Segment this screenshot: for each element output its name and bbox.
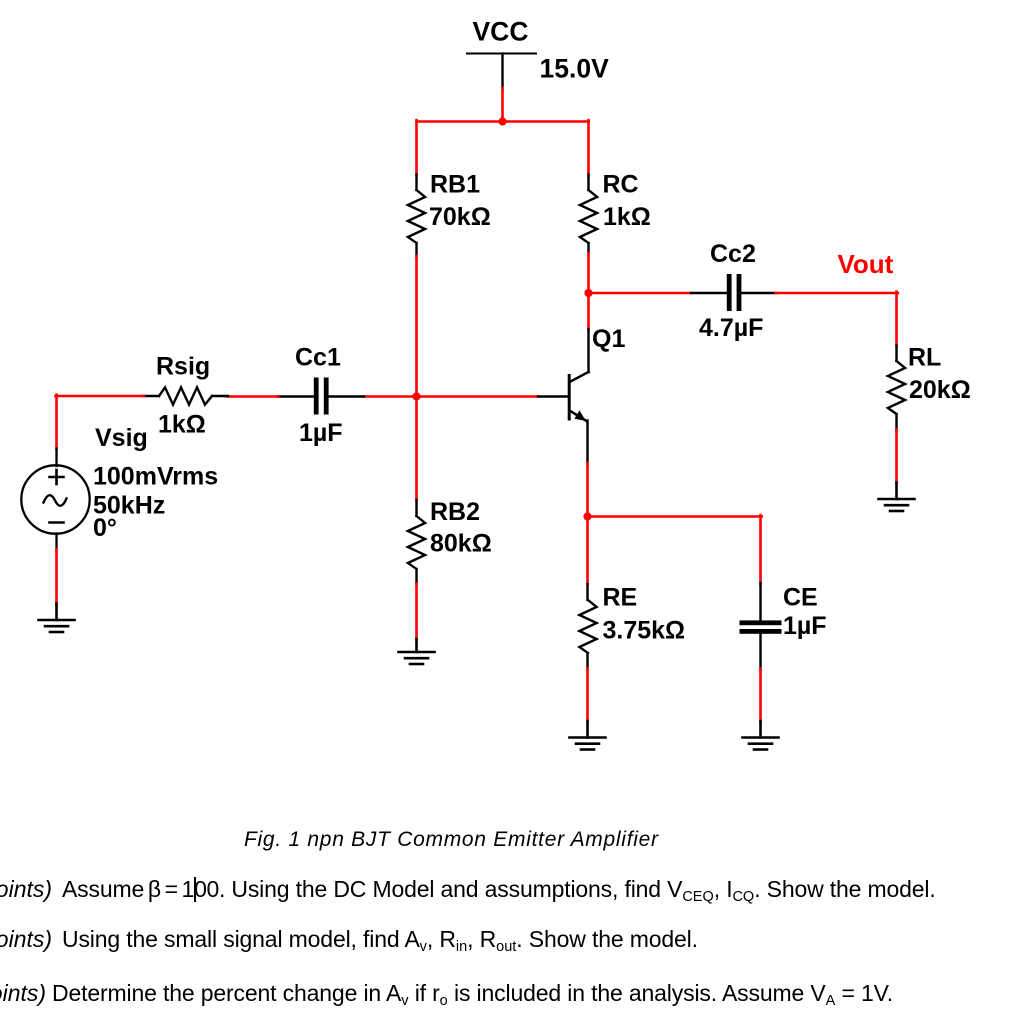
svg-text:RE: RE [603, 584, 638, 612]
wire emitter node to CE branch [588, 515, 762, 518]
ground for RB2 [399, 639, 435, 664]
wire Rsig to Cc1 [227, 395, 278, 398]
svg-text:3.75kΩ: 3.75kΩ [603, 617, 686, 645]
ground for RL [879, 483, 915, 512]
svg-text:1µF: 1µF [783, 612, 827, 640]
svg-text:1kΩ: 1kΩ [603, 203, 651, 231]
svg-text:CE: CE [783, 584, 818, 612]
wire top rail horizontal [417, 120, 589, 123]
wire RL bottom to ground [895, 430, 898, 484]
wire base node down to RB2 [415, 396, 418, 501]
wire RB2 bottom to ground [415, 584, 418, 641]
svg-text:RB2: RB2 [430, 498, 480, 526]
problem text line 2 [0, 926, 52, 953]
svg-text:Q1: Q1 [592, 325, 625, 353]
caption: Fig. 1 npn BJT Common Emitter Amplifier [244, 828, 659, 852]
svg-text:Cc2: Cc2 [710, 240, 756, 268]
svg-text:RB1: RB1 [430, 171, 480, 199]
resistor RB2 [408, 500, 425, 585]
wire collector node to Cc2 [587, 292, 691, 295]
wire base horizontal [363, 395, 539, 398]
svg-text:VCC: VCC [473, 17, 529, 47]
svg-text:0°: 0° [93, 514, 117, 542]
resistor RE [579, 584, 596, 670]
wire CE bottom to ground [759, 669, 762, 723]
wire Vout corner down to RL [895, 292, 898, 346]
svg-text:80kΩ: 80kΩ [430, 530, 492, 558]
svg-text:1µF: 1µF [299, 419, 343, 447]
svg-text:RC: RC [603, 171, 639, 199]
problem text line 3 [0, 980, 46, 1007]
wire emitter node down to RE [586, 515, 589, 584]
wire emitter to emitter node [586, 463, 589, 517]
wire CE branch down [759, 515, 762, 584]
node emitter junction [583, 512, 591, 520]
wire RC bottom to collector node [587, 253, 590, 294]
svg-text:100mVrms: 100mVrms [93, 463, 218, 491]
node VCC rail junction [498, 117, 506, 125]
svg-text:20kΩ: 20kΩ [909, 376, 971, 404]
wire RB1 bottom to base node [415, 256, 418, 397]
resistor RB1 [408, 175, 425, 258]
wire VCC to top rail [501, 88, 504, 123]
wire Vsig corner to Rsig [56, 395, 145, 398]
svg-text:Vsig: Vsig [95, 424, 148, 452]
svg-text:RL: RL [908, 344, 941, 372]
resistor RC [580, 175, 597, 255]
wire Cc2 to Vout corner [776, 292, 898, 295]
capacitor Cc2 [691, 274, 777, 311]
wire Vsig corner down [55, 395, 58, 449]
wire collector node into Q1 [587, 292, 590, 330]
wire rail down to RC [587, 120, 590, 175]
source Vsig [21, 449, 89, 551]
ground for Vsig [39, 604, 75, 633]
wire RE bottom to ground [586, 669, 589, 723]
svg-text:Vout: Vout [838, 249, 894, 279]
svg-text:Rsig: Rsig [156, 353, 210, 381]
svg-text:Cc1: Cc1 [295, 344, 341, 372]
svg-text:15.0V: 15.0V [540, 54, 610, 84]
node base junction [412, 392, 420, 400]
ground for CE [743, 721, 779, 750]
node collector junction [584, 289, 592, 297]
resistor RL [888, 346, 905, 431]
wire Vsig bottom to ground [55, 549, 58, 605]
problem text line 1 [0, 876, 52, 903]
svg-text:4.7µF: 4.7µF [699, 314, 763, 342]
wire rail down to RB1 [415, 120, 418, 175]
VCC power symbol [467, 54, 536, 91]
resistor Rsig [143, 387, 228, 404]
svg-text:1kΩ: 1kΩ [158, 411, 206, 439]
transistor Q1 [538, 329, 589, 464]
svg-text:70kΩ: 70kΩ [429, 203, 491, 231]
capacitor CE [740, 583, 782, 670]
capacitor Cc1 [277, 378, 364, 415]
ground for RE [570, 721, 606, 750]
